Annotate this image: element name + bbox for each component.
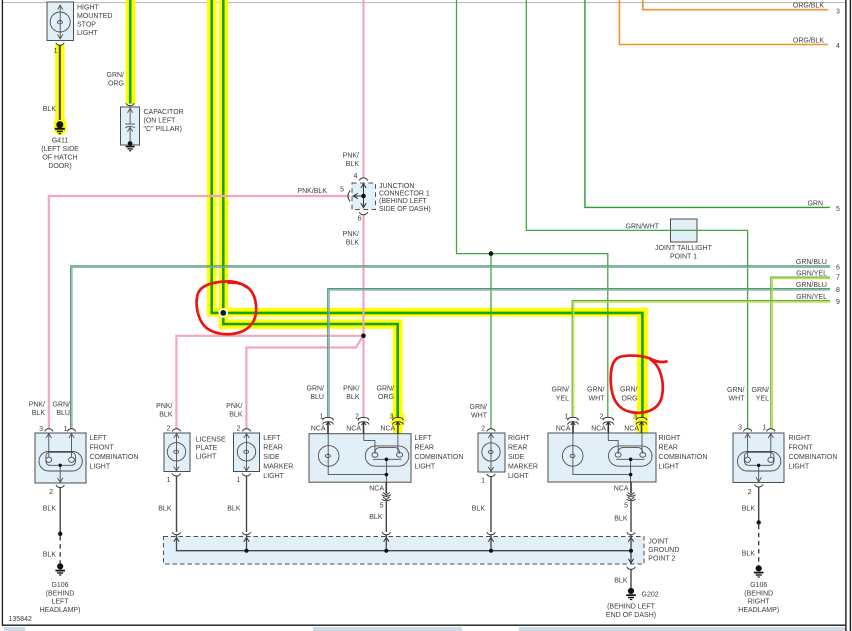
red marker circle around GRN/ORG label (right rear combo) <box>611 356 667 413</box>
right rear combo bulb dots <box>629 458 633 462</box>
ground G106 right <box>754 566 764 577</box>
svg-text:GRN/YEL: GRN/YEL <box>796 294 827 301</box>
highlight: GRN/ORG drop to right rear combination pin 3 <box>637 308 648 434</box>
svg-text:2: 2 <box>600 414 604 421</box>
svg-text:BLK: BLK <box>158 506 172 513</box>
ground G106 left <box>55 564 65 575</box>
svg-text:GRN/: GRN/ <box>727 387 745 394</box>
svg-text:LEFT: LEFT <box>263 435 281 442</box>
svg-text:4: 4 <box>836 43 840 50</box>
svg-text:BLK: BLK <box>43 506 57 513</box>
wire: BLK license to joint ground <box>176 476 178 532</box>
svg-text:"C" PILLAR): "C" PILLAR) <box>144 126 182 133</box>
svg-text:LEFT: LEFT <box>51 599 69 606</box>
junction connector 1 center dot <box>361 194 366 199</box>
svg-text:GRN/BLU: GRN/BLU <box>796 282 827 289</box>
svg-text:135842: 135842 <box>9 616 32 623</box>
right marker bottom pin connector arc <box>487 474 495 477</box>
box: junction connector 1 (dashed) <box>352 183 376 210</box>
wire: PNK/BLK junction pin 5 to left front combination pin 3 <box>49 196 350 429</box>
svg-text:OF HATCH: OF HATCH <box>42 155 77 162</box>
svg-text:5: 5 <box>624 503 628 510</box>
svg-text:WHT: WHT <box>729 396 746 403</box>
svg-text:G106: G106 <box>750 582 767 589</box>
right front bulb junction dot <box>757 464 760 467</box>
box: left front combination light <box>35 433 86 483</box>
left rear side marker light internals <box>237 433 255 471</box>
svg-text:FRONT: FRONT <box>90 445 115 452</box>
svg-text:BLK: BLK <box>346 240 360 247</box>
wire: GRN/BLU line pin 8 to left rear combination pin 1 (green part) <box>328 289 830 418</box>
svg-text:JUNCTION: JUNCTION <box>379 183 414 190</box>
svg-text:NCA: NCA <box>591 426 606 433</box>
wire: GRN/BLU line pin 8 (blue part) <box>329 290 830 418</box>
svg-text:GRN/WHT: GRN/WHT <box>626 224 660 231</box>
wire: BLK right front to G106 <box>758 487 760 522</box>
svg-text:RIGHT: RIGHT <box>748 599 771 606</box>
highlight: bus vertical 2 yellow <box>219 0 228 329</box>
wire: GRN/YEL line pin 7 to right front combination pin 1 (green part) <box>771 277 830 428</box>
left rear combination light internals <box>318 434 408 483</box>
svg-text:GROUND: GROUND <box>648 547 679 554</box>
left rear combo bulb dots <box>385 458 389 462</box>
svg-text:COMBINATION: COMBINATION <box>90 454 139 461</box>
wire: PNK/BLK continues to left rear combination pin 2 <box>362 336 364 418</box>
svg-text:HEADLAMP): HEADLAMP) <box>738 607 779 614</box>
svg-text:PNK/: PNK/ <box>343 231 359 238</box>
right rear combo top pin connectors (1,2,3) <box>568 417 647 433</box>
svg-text:5: 5 <box>340 187 344 194</box>
svg-text:NCA: NCA <box>346 426 361 433</box>
svg-text:GRN/: GRN/ <box>53 402 71 409</box>
svg-text:SIDE: SIDE <box>508 454 525 461</box>
svg-text:GRN/BLU: GRN/BLU <box>796 259 827 266</box>
svg-text:1: 1 <box>320 414 324 421</box>
top grey separator line <box>3 2 845 4</box>
joint ground bus dots <box>245 549 249 553</box>
svg-text:1: 1 <box>481 478 485 485</box>
box: capacitor <box>121 107 140 145</box>
svg-text:3: 3 <box>836 9 840 16</box>
svg-text:BLK: BLK <box>43 106 57 113</box>
svg-text:ORG: ORG <box>622 396 638 403</box>
svg-text:REAR: REAR <box>508 445 527 452</box>
svg-text:GRN/: GRN/ <box>377 386 395 393</box>
svg-text:6: 6 <box>836 265 840 272</box>
svg-text:BLK: BLK <box>229 412 243 419</box>
svg-text:NCA: NCA <box>556 426 571 433</box>
wire: GRN/WHT via joint taillight point 1 to right front combination pin 3 <box>526 0 747 429</box>
svg-text:BLK: BLK <box>32 410 46 417</box>
svg-text:1: 1 <box>237 477 241 484</box>
svg-text:1: 1 <box>565 414 569 421</box>
svg-text:LICENSE: LICENSE <box>196 437 226 444</box>
box: right rear combination light <box>548 433 656 482</box>
svg-text:PNK/: PNK/ <box>343 386 359 393</box>
svg-text:(BEHIND LEFT: (BEHIND LEFT <box>607 604 656 611</box>
wire: BLK stop light to G411 (highlighted) <box>59 46 61 121</box>
license plate light internals <box>167 433 185 471</box>
wire: BLK left marker to joint ground <box>246 476 248 532</box>
stop light bulb symbol <box>50 5 70 39</box>
svg-text:PNK/: PNK/ <box>29 402 45 409</box>
joint ground internal bus wire <box>177 535 632 551</box>
svg-text:JOINT: JOINT <box>648 539 669 546</box>
junction connector 1 internals <box>348 178 368 215</box>
svg-text:BLK: BLK <box>472 506 486 513</box>
svg-text:7: 7 <box>836 275 840 282</box>
svg-text:2: 2 <box>748 489 752 496</box>
capacitor top connector arc <box>126 103 134 106</box>
svg-text:SIDE OF DASH): SIDE OF DASH) <box>379 206 431 213</box>
highlight: GRN/ORG drop to left rear combination pin 3 <box>393 319 403 433</box>
svg-text:LIGHT: LIGHT <box>263 473 284 480</box>
svg-text:2: 2 <box>237 426 241 433</box>
svg-text:1: 1 <box>763 425 767 432</box>
wire: BLK joint ground to G202 <box>630 569 632 589</box>
svg-text:BLK: BLK <box>346 161 360 168</box>
svg-text:ORG/BLK: ORG/BLK <box>793 3 824 10</box>
svg-text:PNK/: PNK/ <box>226 403 242 410</box>
wire: GRN/YEL line pin 9 (yellow part) <box>574 302 830 418</box>
node: bus junction dot <box>219 308 228 317</box>
svg-text:BLK: BLK <box>614 578 628 585</box>
svg-text:POINT 1: POINT 1 <box>670 254 697 261</box>
svg-text:3: 3 <box>39 426 43 433</box>
left front bulb junction dot <box>59 464 62 467</box>
highlight: bus horizontal 1 yellow <box>207 308 648 317</box>
svg-text:RIGHT: RIGHT <box>508 435 531 442</box>
box: high mounted stop light <box>47 2 74 41</box>
svg-text:LIGHT: LIGHT <box>789 464 810 471</box>
svg-text:END OF DASH): END OF DASH) <box>606 612 656 619</box>
highlight: G411 ground yellow blob <box>54 118 67 136</box>
svg-text:3: 3 <box>738 425 742 432</box>
svg-text:2: 2 <box>167 426 171 433</box>
svg-text:BLK: BLK <box>346 394 360 401</box>
svg-text:WHT: WHT <box>471 413 488 420</box>
svg-text:DOOR): DOOR) <box>48 163 71 170</box>
svg-text:MARKER: MARKER <box>508 464 538 471</box>
svg-text:CAPACITOR: CAPACITOR <box>144 109 184 116</box>
svg-text:REAR: REAR <box>659 445 678 452</box>
svg-text:YEL: YEL <box>556 396 569 403</box>
left front bottom pin connector arc <box>56 485 64 488</box>
svg-text:SIDE: SIDE <box>263 454 280 461</box>
svg-text:3: 3 <box>633 414 637 421</box>
svg-text:(LEFT SIDE: (LEFT SIDE <box>41 146 79 153</box>
svg-text:BLK: BLK <box>43 552 57 559</box>
svg-text:BLK: BLK <box>227 506 241 513</box>
wire: GRN to pin 5 <box>585 0 830 207</box>
svg-text:2: 2 <box>49 489 53 496</box>
wire: BLK left rear combo to joint ground <box>385 502 387 533</box>
box: right front combination light <box>733 433 784 483</box>
svg-text:LIGHT: LIGHT <box>90 464 111 471</box>
svg-text:ORG: ORG <box>378 394 394 401</box>
svg-text:ORG/BLK: ORG/BLK <box>793 38 824 45</box>
highlight: stop light wire yellow band <box>55 45 64 120</box>
svg-text:LIGHT: LIGHT <box>196 453 217 460</box>
svg-text:GRN/YEL: GRN/YEL <box>796 270 827 277</box>
wire: PNK/BLK from top to junction connector 1 <box>362 0 364 179</box>
highlight: capacitor wire yellow band <box>126 0 136 104</box>
svg-text:GRN/: GRN/ <box>470 404 488 411</box>
svg-text:WHT: WHT <box>589 396 606 403</box>
left marker top pin connector arc <box>242 429 250 432</box>
svg-text:LEFT: LEFT <box>90 435 108 442</box>
svg-text:ORG: ORG <box>108 81 124 88</box>
svg-text:9: 9 <box>836 299 840 306</box>
license top pin connector arc <box>172 429 180 432</box>
svg-text:MOUNTED: MOUNTED <box>77 13 112 20</box>
right marker top pin connector arc <box>487 429 495 432</box>
chrome: bottom scrollbar segments <box>4 627 25 631</box>
wire: GRN/ORG green core of bus 2 (to left rear combination pin 3) <box>223 0 397 418</box>
svg-text:PNK/BLK: PNK/BLK <box>297 188 327 195</box>
svg-text:BLU: BLU <box>56 410 70 417</box>
svg-text:MARKER: MARKER <box>263 464 293 471</box>
right rear side marker light internals <box>482 433 500 472</box>
highlight: yellow X at right rear pin 3 connector <box>635 415 648 424</box>
wire: PNK/BLK branch to left rear side marker light <box>246 337 362 429</box>
svg-text:NCA: NCA <box>311 426 326 433</box>
svg-text:1: 1 <box>54 48 58 55</box>
svg-text:G411: G411 <box>52 138 69 145</box>
svg-text:REAR: REAR <box>415 445 434 452</box>
right rear combination light internals <box>562 433 652 482</box>
svg-text:(ON LEFT: (ON LEFT <box>144 118 177 125</box>
svg-text:NCA: NCA <box>380 426 395 433</box>
stop light bottom pin connector arc <box>56 43 64 46</box>
wire: ORG/BLK to pin 4 <box>619 0 828 45</box>
left front top pin connector arcs <box>45 429 53 432</box>
wire: GRN/YEL line pin 9 to right rear combination pin 1 (green part) <box>572 301 830 418</box>
svg-text:2: 2 <box>481 426 485 433</box>
svg-text:LIGHT: LIGHT <box>508 473 529 480</box>
svg-text:POINT 2: POINT 2 <box>648 556 675 563</box>
svg-text:1: 1 <box>64 426 68 433</box>
svg-text:COMBINATION: COMBINATION <box>415 454 464 461</box>
svg-text:BLK: BLK <box>614 516 628 523</box>
capacitor ground bars <box>126 147 135 151</box>
svg-text:BLK: BLK <box>742 506 756 513</box>
svg-text:JOINT TAILLIGHT: JOINT TAILLIGHT <box>655 245 713 252</box>
svg-text:3: 3 <box>390 414 394 421</box>
svg-text:FRONT: FRONT <box>789 445 814 452</box>
svg-text:1: 1 <box>167 477 171 484</box>
svg-text:LIGHT: LIGHT <box>659 464 680 471</box>
svg-text:(BEHIND LEFT: (BEHIND LEFT <box>379 198 428 205</box>
wire: GRN/BLU line pin 6 (blue part) <box>72 267 830 428</box>
wire: GRN/ORG capacitor wire green core <box>129 0 132 104</box>
wire: ORG/BLK to pin 3 <box>643 0 828 10</box>
svg-text:4: 4 <box>354 173 358 180</box>
svg-text:GRN/: GRN/ <box>552 387 570 394</box>
highlight: bus horizontal 2 yellow <box>219 319 401 328</box>
svg-text:NCA: NCA <box>369 485 384 492</box>
capacitor bottom dot <box>128 141 133 146</box>
svg-text:BLK: BLK <box>159 412 173 419</box>
svg-text:REAR: REAR <box>263 445 282 452</box>
svg-text:PNK/: PNK/ <box>156 403 172 410</box>
left front combination light internals <box>39 433 82 483</box>
svg-text:(BEHIND: (BEHIND <box>744 590 773 597</box>
node: GRN/WHT junction dot <box>489 251 494 256</box>
svg-text:RIGHT: RIGHT <box>789 435 812 442</box>
wire: PNK/BLK junction pin 6 down to split dot <box>362 215 364 336</box>
wire: GRN/YEL line pin 7 (yellow part) <box>772 279 830 429</box>
wire: GRN/BLU line pin 6 to left front combination pin 1 (green part) <box>71 266 830 429</box>
right front top pin connector arcs <box>743 429 751 432</box>
svg-text:COMBINATION: COMBINATION <box>659 454 708 461</box>
svg-text:HEADLAMP): HEADLAMP) <box>40 607 81 614</box>
left marker bottom pin connector arc <box>242 473 250 476</box>
box: joint ground point 2 (dashed) <box>164 537 645 565</box>
svg-text:PNK/: PNK/ <box>343 153 359 160</box>
box: right rear side marker light <box>478 433 505 472</box>
capacitor internal symbol <box>125 108 135 144</box>
svg-text:RIGHT: RIGHT <box>659 435 682 442</box>
svg-text:PLATE: PLATE <box>196 445 218 452</box>
svg-text:5: 5 <box>380 503 384 510</box>
box: joint taillight point 1 <box>671 219 698 242</box>
ground G411 symbol <box>55 122 65 134</box>
svg-text:GRN/: GRN/ <box>107 72 125 79</box>
svg-text:NCA: NCA <box>614 485 629 492</box>
node: pink split dot <box>361 334 366 339</box>
svg-text:GRN/: GRN/ <box>752 387 770 394</box>
svg-text:GRN/: GRN/ <box>587 387 605 394</box>
svg-text:8: 8 <box>836 287 840 294</box>
joint ground point 2 internals <box>172 532 635 569</box>
svg-text:NCA: NCA <box>624 426 639 433</box>
chrome: right double border <box>845 0 847 631</box>
wire: BLK left front to G106 <box>59 488 61 534</box>
svg-text:5: 5 <box>836 206 840 213</box>
highlight: bus vertical 1 yellow <box>207 0 217 317</box>
chrome: bottom border <box>2 624 845 626</box>
svg-text:6: 6 <box>358 216 362 223</box>
svg-text:(BEHIND: (BEHIND <box>46 590 75 597</box>
svg-text:BLK: BLK <box>742 551 756 558</box>
right front combination light internals <box>738 433 781 482</box>
red marker circle around bus corner <box>197 281 257 334</box>
svg-text:YEL: YEL <box>756 396 769 403</box>
box: left rear combination light <box>309 434 411 483</box>
highlight: yellow X at left rear pin 3 connector <box>391 415 404 424</box>
ground G202 <box>626 588 636 599</box>
svg-text:GRN: GRN <box>807 201 823 208</box>
svg-text:2: 2 <box>355 414 359 421</box>
box: license plate light <box>164 433 190 472</box>
svg-text:LEFT: LEFT <box>415 435 433 442</box>
svg-text:COMBINATION: COMBINATION <box>789 454 838 461</box>
wire: BLK right rear combo to joint ground <box>630 502 632 533</box>
wire: GRN/WHT branch down to right rear side marker pin 2 <box>490 254 492 429</box>
svg-text:GRN/: GRN/ <box>620 387 638 394</box>
svg-text:STOP: STOP <box>77 22 96 29</box>
svg-text:GRN/: GRN/ <box>307 386 325 393</box>
wire: BLK right marker to joint ground <box>490 477 492 532</box>
svg-text:CONNECTOR 1: CONNECTOR 1 <box>379 191 430 198</box>
box: left rear side marker light <box>234 433 260 472</box>
chrome: left border <box>1 0 3 626</box>
wire: PNK/BLK branch to license plate light <box>176 336 363 429</box>
svg-text:G202: G202 <box>642 592 659 599</box>
svg-text:G106: G106 <box>51 582 68 589</box>
left rear combo top pin connectors (1,2,3) <box>323 417 404 433</box>
license bottom pin connector arc <box>172 473 180 476</box>
svg-text:HIGHT: HIGHT <box>77 5 100 12</box>
svg-text:BLK: BLK <box>369 514 383 521</box>
svg-text:LIGHT: LIGHT <box>415 464 436 471</box>
wire: GRN/WHT net to right rear marker and right rear combination pin 2 <box>457 0 608 418</box>
svg-text:LIGHT: LIGHT <box>77 30 98 37</box>
wire: GRN/ORG green core of bus 1 (to right rear combination pin 3) <box>212 0 643 418</box>
right front bottom pin connector arc <box>755 484 763 487</box>
svg-text:BLU: BLU <box>310 394 324 401</box>
